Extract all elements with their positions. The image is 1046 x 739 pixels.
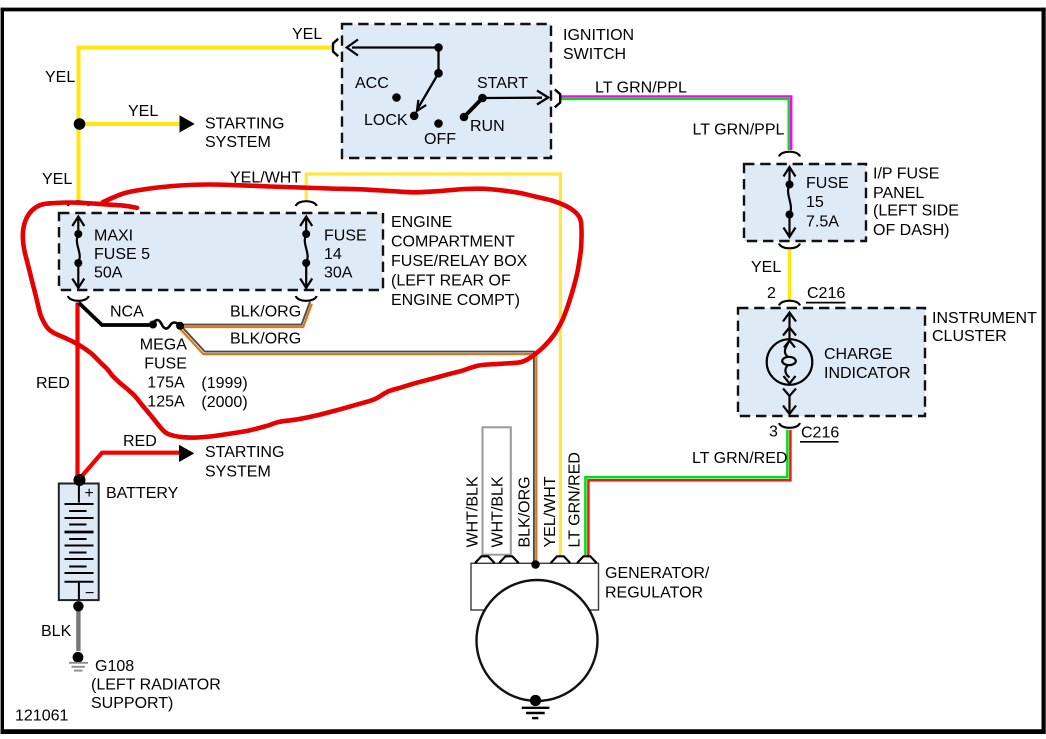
svg-text:+: + bbox=[85, 485, 94, 502]
svg-text:ENGINE: ENGINE bbox=[391, 214, 452, 231]
svg-text:(LEFT SIDE: (LEFT SIDE bbox=[873, 203, 959, 220]
svg-text:YEL/WHT: YEL/WHT bbox=[230, 170, 301, 187]
svg-text:3: 3 bbox=[769, 423, 778, 440]
svg-text:OF DASH): OF DASH) bbox=[873, 222, 949, 239]
svg-text:NCA: NCA bbox=[110, 304, 144, 321]
svg-text:RED: RED bbox=[123, 433, 157, 450]
svg-text:LT GRN/PPL: LT GRN/PPL bbox=[693, 121, 785, 138]
svg-text:175A: 175A bbox=[147, 375, 185, 392]
svg-text:BLK/ORG: BLK/ORG bbox=[230, 330, 301, 347]
svg-text:FUSE/RELAY BOX: FUSE/RELAY BOX bbox=[391, 253, 528, 270]
svg-text:YEL: YEL bbox=[45, 69, 75, 86]
svg-text:FUSE 5: FUSE 5 bbox=[94, 246, 150, 263]
svg-text:SYSTEM: SYSTEM bbox=[205, 463, 271, 480]
svg-text:SUPPORT): SUPPORT) bbox=[91, 695, 173, 712]
svg-text:FUSE: FUSE bbox=[324, 227, 367, 244]
svg-text:MEGA: MEGA bbox=[140, 337, 187, 354]
svg-text:ENGINE COMPT): ENGINE COMPT) bbox=[391, 292, 520, 309]
svg-text:RUN: RUN bbox=[470, 118, 505, 135]
svg-text:15: 15 bbox=[806, 194, 824, 211]
svg-text:YEL: YEL bbox=[42, 171, 72, 188]
svg-text:YEL: YEL bbox=[292, 26, 322, 43]
svg-text:2: 2 bbox=[767, 285, 776, 302]
svg-text:SWITCH: SWITCH bbox=[563, 46, 626, 63]
svg-text:121061: 121061 bbox=[15, 707, 68, 724]
svg-text:C216: C216 bbox=[807, 285, 845, 302]
svg-text:WHT/BLK: WHT/BLK bbox=[465, 476, 482, 547]
svg-text:LT GRN/RED: LT GRN/RED bbox=[567, 452, 584, 547]
svg-text:STARTING: STARTING bbox=[205, 115, 284, 132]
svg-text:YEL: YEL bbox=[128, 103, 158, 120]
svg-text:125A: 125A bbox=[147, 393, 185, 410]
svg-text:INSTRUMENT: INSTRUMENT bbox=[932, 310, 1037, 327]
svg-text:YEL/WHT: YEL/WHT bbox=[542, 476, 559, 547]
svg-text:PANEL: PANEL bbox=[873, 185, 924, 202]
svg-text:(1999): (1999) bbox=[201, 375, 247, 392]
svg-text:IGNITION: IGNITION bbox=[563, 27, 634, 44]
svg-text:7.5A: 7.5A bbox=[806, 214, 839, 231]
svg-text:CHARGE: CHARGE bbox=[824, 346, 892, 363]
svg-text:50A: 50A bbox=[94, 265, 123, 282]
svg-text:−: − bbox=[85, 585, 94, 602]
svg-text:(LEFT RADIATOR: (LEFT RADIATOR bbox=[91, 676, 221, 693]
svg-text:OFF: OFF bbox=[424, 131, 456, 148]
svg-text:STARTING: STARTING bbox=[205, 444, 284, 461]
svg-text:CLUSTER: CLUSTER bbox=[932, 328, 1007, 345]
svg-text:MAXI: MAXI bbox=[94, 227, 133, 244]
svg-text:GENERATOR/: GENERATOR/ bbox=[605, 565, 710, 582]
svg-text:BLK/ORG: BLK/ORG bbox=[230, 304, 301, 321]
svg-text:YEL: YEL bbox=[751, 259, 781, 276]
svg-text:BATTERY: BATTERY bbox=[106, 485, 179, 502]
svg-text:(LEFT REAR OF: (LEFT REAR OF bbox=[391, 272, 511, 289]
svg-text:START: START bbox=[477, 75, 528, 92]
svg-text:14: 14 bbox=[324, 246, 342, 263]
svg-text:COMPARTMENT: COMPARTMENT bbox=[391, 234, 515, 251]
svg-text:RED: RED bbox=[36, 375, 70, 392]
svg-text:LT GRN/RED: LT GRN/RED bbox=[692, 450, 787, 467]
svg-text:C216: C216 bbox=[801, 424, 839, 441]
svg-text:G108: G108 bbox=[95, 658, 134, 675]
svg-text:REGULATOR: REGULATOR bbox=[605, 584, 703, 601]
svg-text:(2000): (2000) bbox=[201, 394, 247, 411]
svg-text:FUSE: FUSE bbox=[806, 175, 849, 192]
svg-text:I/P FUSE: I/P FUSE bbox=[873, 166, 939, 183]
svg-text:LT GRN/PPL: LT GRN/PPL bbox=[595, 79, 687, 96]
svg-text:SYSTEM: SYSTEM bbox=[205, 134, 271, 151]
svg-text:BLK/ORG: BLK/ORG bbox=[517, 476, 534, 547]
svg-text:LOCK: LOCK bbox=[364, 112, 408, 129]
svg-text:FUSE: FUSE bbox=[144, 356, 187, 373]
svg-text:30A: 30A bbox=[324, 265, 353, 282]
svg-text:WHT/BLK: WHT/BLK bbox=[490, 476, 507, 547]
svg-text:ACC: ACC bbox=[355, 75, 389, 92]
svg-text:INDICATOR: INDICATOR bbox=[824, 365, 911, 382]
svg-text:BLK: BLK bbox=[41, 623, 72, 640]
